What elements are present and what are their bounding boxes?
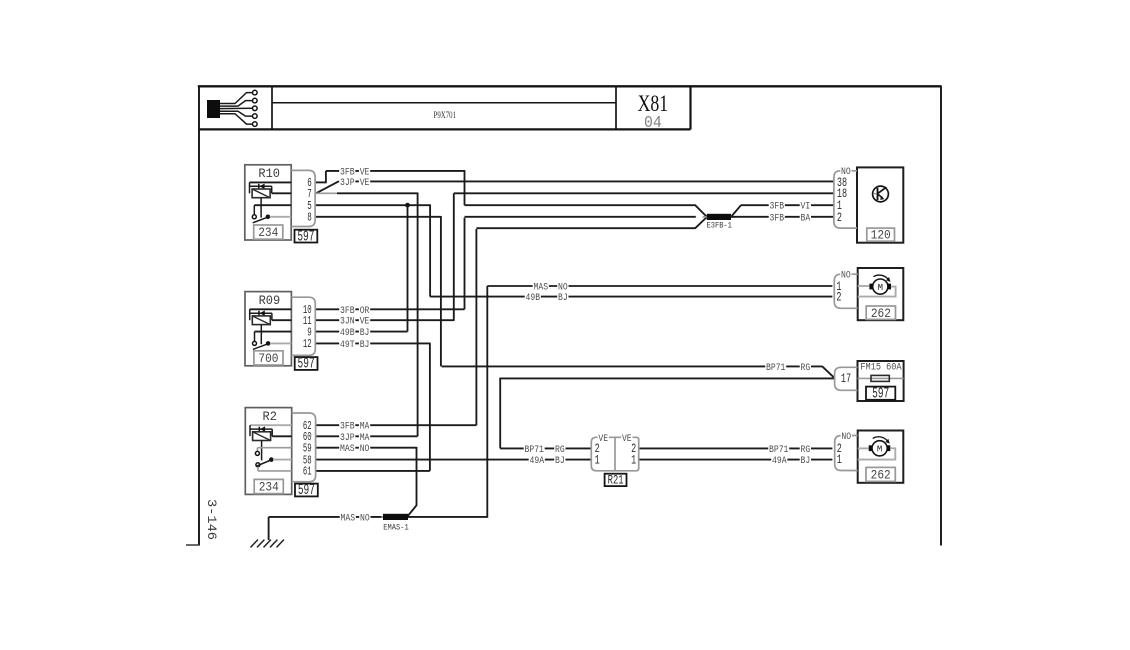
wire BP71-RG run to fuse FM15: [442, 365, 823, 367]
title block right border of X81 cell: [689, 86, 691, 129]
wire 3FB-OR feed toward splice: [476, 227, 695, 229]
connector label NO at lower 262: [841, 432, 852, 442]
label 3JP-VE: [339, 178, 355, 188]
wire 49B vertical drop at x=430: [429, 204, 431, 296]
svg-text:R21: R21: [608, 473, 624, 488]
connector shell at lower 262: [835, 436, 858, 471]
svg-text:BJ: BJ: [558, 293, 568, 304]
motor symbol M lower 262: [872, 441, 887, 456]
svg-text:BJ: BJ: [555, 456, 565, 467]
svg-text:3JP: 3JP: [340, 178, 355, 189]
svg-text:61: 61: [303, 465, 312, 479]
relay R09 NO contact wire (pin 9): [255, 331, 292, 333]
svg-text:3FB: 3FB: [770, 213, 785, 224]
svg-text:NO: NO: [841, 432, 851, 443]
connector 597 shell of R10: [291, 170, 315, 226]
svg-text:VI: VI: [801, 202, 811, 213]
drawing frame left border: [198, 86, 200, 546]
ignition switch unit 120 body: [857, 167, 903, 242]
connector 597 code box of R2: [295, 484, 318, 497]
svg-text:3-146: 3-146: [204, 499, 219, 540]
svg-text:NO: NO: [360, 444, 370, 455]
wire 3FB vertical x=464 lower segment: [464, 218, 466, 310]
harness icon lead 3: [220, 107, 253, 109]
wire vertical drop at x=500: [499, 378, 501, 449]
splice E3FB-1: [703, 216, 736, 218]
wire 3FB-BA run to switch pin 2: [731, 216, 834, 218]
label BP71-RG at R21: [524, 445, 545, 455]
svg-text:VE: VE: [598, 434, 608, 445]
label 3FB-MA: [339, 422, 355, 432]
lower 262 interior return elbow: [858, 448, 896, 459]
relay R09 body: [245, 292, 291, 366]
wire 3FB-MA from R2 pin 62: [316, 424, 476, 426]
svg-text:597: 597: [298, 357, 315, 373]
relay R09 switch lever: [253, 344, 267, 349]
svg-text:NO: NO: [360, 513, 370, 524]
title block divider after icon cell: [271, 86, 273, 129]
svg-text:3FB: 3FB: [340, 306, 355, 317]
label 3FB-VI: [769, 202, 785, 212]
harness icon lead 4: [220, 111, 253, 116]
fuse element symbol: [871, 375, 889, 381]
relay R2 coil right branch (pin 60): [271, 429, 273, 436]
upper 262 interior return elbow: [858, 287, 896, 297]
junction 49B node: [405, 203, 410, 208]
wire BP71-RG from R21 to motor 262: [639, 447, 833, 449]
R21 left half label VE: [598, 434, 609, 444]
relay R09 common wire (pin 12): [270, 342, 291, 344]
wire 49T vertical drop at x=430: [429, 343, 431, 471]
harness connector icon body: [207, 100, 220, 118]
connector 597 shell of R09: [291, 297, 315, 355]
label BP71-RG at fuse: [765, 363, 786, 373]
svg-text:49A: 49A: [772, 456, 787, 467]
wire run to R2 pin 61: [316, 470, 430, 472]
label 49B-BJ at motor: [525, 293, 541, 303]
svg-text:R2: R2: [263, 409, 277, 424]
relay R09 NO contact: [253, 341, 257, 345]
svg-text:R09: R09: [259, 293, 281, 308]
relay R2 suppression diode: [258, 427, 260, 432]
wire vertical drop at x=441 to BP71: [440, 216, 442, 366]
wire MAS-NO run to pump motor pin 1: [487, 285, 832, 287]
harness icon terminal ring 4: [253, 114, 258, 119]
fuse element wire: [858, 377, 904, 379]
relay R2 NC contact: [256, 463, 260, 467]
wire 3FB diagonal into splice left: [695, 205, 707, 217]
svg-text:1: 1: [631, 452, 636, 467]
label 3JP-MA: [339, 433, 355, 443]
label MAS-NO at R2: [339, 444, 355, 454]
label 49A-BJ right of R21: [771, 456, 787, 466]
R21 designator box: [605, 474, 627, 486]
svg-text:17: 17: [841, 371, 851, 386]
relay R09 location code 700: [254, 351, 283, 365]
svg-text:FM15 60A: FM15 60A: [860, 363, 901, 374]
wire 49A-BJ from R21 to motor 262: [639, 459, 833, 461]
wire MAS-NO from splice toward motor: [408, 516, 487, 518]
washer pump motor unit 262 (upper) body: [858, 268, 904, 320]
harness icon terminal ring 3: [253, 106, 258, 111]
wire BP71-RG to R21 pin 2: [500, 447, 591, 449]
ground drop wire: [268, 517, 270, 540]
wire from fuse pin 17: [500, 377, 834, 379]
relay R10 NO contact wire (pin 5): [254, 204, 291, 206]
svg-text:120: 120: [871, 228, 891, 243]
wire 3JP branch at pin-7 level: [337, 192, 418, 194]
relay R10 common pivot: [266, 215, 271, 220]
relay R10 coil: [252, 189, 270, 198]
svg-text:2: 2: [837, 210, 842, 225]
wire run to switch pin 18: [454, 192, 834, 194]
upper 262 location code: [866, 306, 895, 319]
svg-text:RG: RG: [555, 445, 565, 456]
relay R10 location code 234: [254, 225, 283, 239]
fuse location code 597: [866, 387, 895, 400]
wire R10 pin 6 stub: [316, 181, 326, 183]
harness icon lead 2: [220, 101, 253, 107]
wire 49B vertical drop to R09 pin 9: [407, 205, 409, 331]
relay R2 armature link: [261, 441, 263, 461]
svg-text:M: M: [878, 283, 883, 293]
svg-text:NO: NO: [841, 271, 851, 282]
svg-text:BP71: BP71: [766, 363, 785, 374]
wire MAS-NO from R2 pin 59: [316, 447, 417, 449]
relay R09 suppression diode: [258, 311, 260, 316]
svg-text:BA: BA: [801, 213, 811, 224]
svg-text:49A: 49A: [530, 456, 545, 467]
harness icon lead 1: [220, 93, 253, 104]
relay R09 armature link: [260, 325, 262, 345]
inline connector R21 shell: [591, 437, 638, 471]
svg-text:E3FB-1: E3FB-1: [706, 221, 732, 231]
relay R09 coil left branch: [249, 309, 251, 320]
ground chassis symbol: [251, 540, 284, 548]
relay R10 coil feed wire (pin 6): [250, 181, 292, 183]
wire 3FB-VI run to switch pin 1: [741, 204, 834, 206]
drawing frame top border: [198, 85, 942, 87]
svg-text:234: 234: [258, 225, 278, 240]
wire riser to 3FB-VE level: [325, 171, 327, 183]
svg-text:04: 04: [644, 114, 662, 133]
wire 49A-BJ from R2 pin 58 to R21: [316, 459, 591, 461]
wire 3JP vertical drop at x=417: [417, 193, 419, 437]
harness icon terminal ring 5: [253, 122, 258, 127]
svg-text:BP71: BP71: [769, 445, 788, 456]
title block divider before X81 cell: [615, 86, 617, 129]
connector 597 code box of R10: [295, 230, 318, 243]
svg-text:M: M: [877, 445, 882, 455]
R21 right half label VE: [621, 434, 632, 444]
relay R2 common pivot: [269, 457, 274, 462]
wire 3FB vertical at x=476: [475, 229, 477, 425]
svg-text:8: 8: [307, 211, 312, 225]
svg-text:12: 12: [303, 337, 312, 351]
svg-text:R10: R10: [258, 166, 280, 181]
wire MAS-NO vertical drop at x=416: [416, 447, 418, 506]
svg-text:234: 234: [259, 479, 279, 494]
relay R09 common pivot: [266, 341, 271, 346]
label 3FB-BA: [769, 213, 785, 223]
relay R2 switch lever: [256, 461, 270, 467]
connector shell at upper 262: [834, 274, 857, 308]
relay R10 NO contact: [252, 215, 256, 219]
label MAS-NO at ground: [340, 513, 356, 523]
svg-text:MA: MA: [360, 422, 370, 433]
relay R10 suppression diode: [258, 184, 260, 189]
svg-text:NO: NO: [558, 283, 568, 294]
svg-text:VE: VE: [360, 317, 370, 328]
wire from R10 pin 8: [316, 216, 441, 218]
relay R10 armature link: [260, 198, 262, 218]
connector shell at fuse pin 17: [835, 367, 858, 390]
lower 262 location code: [866, 467, 895, 481]
relay R2 coil left branch: [249, 425, 251, 436]
svg-text:3JN: 3JN: [340, 317, 355, 328]
wire 49B-BJ from R09 pin 9: [316, 331, 408, 333]
relay R2 diode branch: [250, 428, 272, 430]
wire diagonal up into splice left: [695, 217, 707, 228]
svg-text:3FB: 3FB: [340, 422, 355, 433]
svg-text:262: 262: [871, 306, 891, 321]
svg-text:49B: 49B: [340, 328, 355, 339]
svg-text:3FB: 3FB: [340, 167, 355, 178]
wire 3JN-VE from R09 pin 11: [316, 319, 454, 321]
svg-text:49T: 49T: [340, 340, 355, 351]
svg-text:49B: 49B: [526, 293, 541, 304]
svg-text:MAS: MAS: [534, 283, 549, 294]
svg-text:BJ: BJ: [801, 456, 811, 467]
relay R09 diode branch: [250, 312, 272, 314]
wire 3FB-MA feed into splice middle: [465, 216, 696, 218]
wire 3FB vertical drop at x=464: [464, 170, 466, 205]
wire diagonal into fuse pin 17: [822, 366, 834, 378]
label BP71-RG right of R21: [768, 445, 789, 455]
svg-text:262: 262: [871, 468, 891, 483]
wire MAS-NO diagonal into splice EMAS-1: [408, 505, 417, 516]
svg-text:BP71: BP71: [525, 445, 544, 456]
label 49A-BJ at R21: [529, 456, 545, 466]
splice EMAS-1: [381, 516, 411, 518]
svg-text:RG: RG: [801, 363, 811, 374]
wire 49B-BJ run to pump motor pin 2: [430, 296, 832, 298]
motor symbol M upper 262: [873, 279, 888, 294]
wire 3JP-MA from R2 pin 60: [316, 435, 418, 437]
svg-text:597: 597: [297, 229, 314, 245]
connector 597 shell of R2: [292, 413, 316, 482]
wire 3FB-VE horizontal run: [326, 170, 465, 172]
fuse unit FM15 60A body: [858, 361, 904, 401]
label 3FB-OR: [339, 306, 355, 316]
relay R2 NO contact wire (pin 59): [257, 447, 291, 449]
svg-text:EMAS-1: EMAS-1: [383, 523, 409, 533]
relay R09 coil feed wire (pin 10): [250, 308, 292, 310]
label MAS-NO at motor: [533, 282, 549, 292]
washer pump motor unit 262 (lower) body: [858, 431, 904, 483]
harness icon lead 5: [220, 114, 253, 124]
label 3FB-VE: [339, 167, 355, 177]
relay R09 coil right branch (pin 11): [271, 313, 273, 320]
wire 3JP-VE run to switch pin 38: [339, 180, 834, 182]
relay R2 NC contact wire (pin 61): [257, 467, 259, 471]
connector 597 code box of R09: [295, 357, 318, 370]
title block bottom border: [199, 128, 691, 130]
svg-text:MA: MA: [360, 433, 370, 444]
wire 49T-BJ from R09 pin 12: [316, 342, 430, 344]
relay R10 coil left branch: [249, 182, 251, 193]
svg-text:OR: OR: [360, 306, 370, 317]
wire gray stub at pin 7 level: [316, 192, 337, 194]
relay R2 NO contact: [255, 451, 259, 455]
svg-text:BJ: BJ: [360, 328, 370, 339]
svg-text:MAS: MAS: [341, 513, 356, 524]
svg-text:3FB: 3FB: [770, 202, 785, 213]
lower 262 interior feed wire: [858, 447, 869, 449]
label 49B-BJ: [339, 328, 355, 338]
svg-text:597: 597: [872, 387, 889, 403]
svg-text:MAS: MAS: [340, 444, 355, 455]
upper 262 interior feed wire: [858, 285, 870, 287]
svg-text:VE: VE: [360, 167, 370, 178]
svg-text:3JP: 3JP: [340, 433, 355, 444]
relay R09 coil: [252, 316, 270, 325]
wire 49B from R10 pin 5: [316, 204, 430, 206]
svg-text:1: 1: [595, 452, 600, 467]
wire R10 pin 7 diagonal to 3JP-VE: [316, 181, 339, 193]
svg-text:700: 700: [258, 351, 278, 366]
relay R10 coil right branch (pin 7): [271, 186, 273, 193]
svg-text:BJ: BJ: [360, 340, 370, 351]
wire MAS-NO vertical riser at x=487: [486, 286, 488, 518]
wire MAS-NO to ground: [269, 516, 383, 518]
label 3JN-VE: [339, 317, 355, 327]
relay R10 switch lever: [253, 218, 267, 223]
harness icon terminal ring 2: [253, 98, 258, 103]
svg-text:X81: X81: [638, 91, 669, 116]
svg-text:VE: VE: [360, 178, 370, 189]
wire 3JN vertical riser at x=454: [453, 193, 455, 321]
wire diagonal out of splice to 3FB-VI: [731, 205, 741, 217]
relay R2 location code 234: [254, 479, 283, 493]
svg-text:2: 2: [836, 289, 841, 304]
connector shell at switch 120: [834, 171, 857, 228]
connector label NO at upper 262: [840, 271, 851, 281]
svg-text:1: 1: [837, 452, 842, 467]
relay R10 body: [245, 165, 291, 240]
wire 3FB-OR from R09 pin 10: [316, 308, 465, 310]
harness icon terminal ring 1: [253, 90, 258, 95]
svg-text:P9X701: P9X701: [434, 110, 457, 120]
wire 3FB feed toward splice E3FB-1: [465, 204, 696, 206]
title block middle horizontal divider: [272, 102, 616, 104]
ignition switch location code 120: [867, 228, 895, 241]
label 49T-BJ: [339, 340, 355, 350]
relay R10 common wire (pin 8): [270, 216, 291, 218]
relay R10 diode branch: [250, 185, 272, 187]
drawing frame right border: [940, 86, 942, 546]
relay R2 coil: [253, 432, 271, 441]
svg-text:RG: RG: [801, 445, 811, 456]
relay R2 body: [245, 408, 291, 495]
ignition switch contact symbol K: [873, 186, 889, 202]
R21 center divider: [614, 437, 616, 471]
svg-text:597: 597: [298, 483, 315, 499]
frame tick mark bottom left: [186, 544, 199, 546]
relay R2 coil feed wire (pin 62): [250, 424, 292, 426]
connector label NO at 120: [840, 167, 851, 177]
relay R2 common wire (pin 58): [273, 459, 292, 461]
